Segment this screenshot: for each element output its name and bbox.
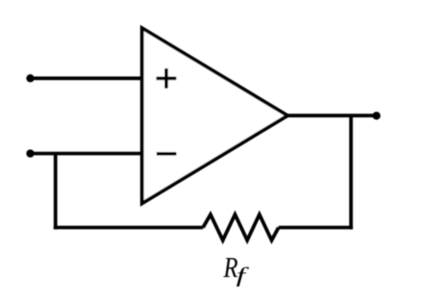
node: input terminal (bottom) [26, 150, 34, 158]
wire: bottom rail right segment [279, 226, 353, 230]
op-amp U1 [142, 28, 288, 203]
wire: output lead [288, 114, 377, 118]
node: input terminal (top) [26, 74, 34, 82]
resistor Rf [203, 215, 279, 241]
wire: bottom rail left segment [54, 226, 203, 230]
wire: feedback branch up to output [349, 116, 353, 230]
svg-text:f: f [236, 264, 249, 287]
wire: inverting input lead [30, 152, 142, 156]
wire: non-inverting input lead [30, 77, 142, 81]
label Rf (value of feedback resistor) [223, 251, 250, 287]
op-amp non-inverting input marker (+) [156, 68, 176, 88]
node: output terminal [373, 112, 381, 120]
op-amp inverting input marker (-) [157, 152, 177, 156]
wire: feedback branch down from inverting input [54, 154, 58, 230]
